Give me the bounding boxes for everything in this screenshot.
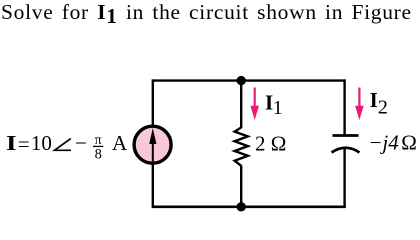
svg-text:10: 10 (31, 131, 52, 155)
svg-text:8: 8 (95, 146, 102, 162)
svg-text:2: 2 (378, 97, 388, 119)
current source arrow (152, 141, 154, 162)
angle symbol (55, 139, 72, 151)
svg-text:A: A (112, 131, 128, 155)
current arrow I1 (254, 88, 256, 109)
capacitor C top plate (333, 134, 359, 137)
capacitor C bottom curved plate (332, 148, 360, 153)
node dot top (237, 76, 246, 85)
node dot bottom (237, 202, 246, 211)
wire middle branch upper (240, 79, 242, 128)
wire top rail (152, 79, 346, 81)
svg-text:Ω: Ω (401, 130, 417, 154)
svg-text:I: I (370, 88, 378, 112)
svg-text:2 Ω: 2 Ω (255, 131, 286, 155)
wire right branch upper (343, 79, 345, 135)
svg-text:1: 1 (273, 97, 283, 119)
current arrow I2 (358, 88, 360, 109)
svg-text:π: π (95, 132, 102, 147)
resistor R 2ohm zigzag (235, 128, 248, 166)
svg-text:I: I (6, 132, 17, 155)
wire left branch lower (152, 162, 154, 208)
current source I (134, 126, 171, 163)
svg-text:−: − (75, 131, 87, 155)
wire bottom rail (152, 205, 346, 208)
wire right branch lower (343, 149, 345, 208)
svg-text:−j4: −j4 (368, 130, 399, 154)
wire middle branch lower (240, 166, 242, 209)
svg-text:=: = (18, 132, 30, 156)
wire left branch upper (152, 79, 154, 127)
svg-text:Solve for I1 in the circuit sh: Solve for I1 in the circuit shown in Fig… (1, 0, 412, 28)
